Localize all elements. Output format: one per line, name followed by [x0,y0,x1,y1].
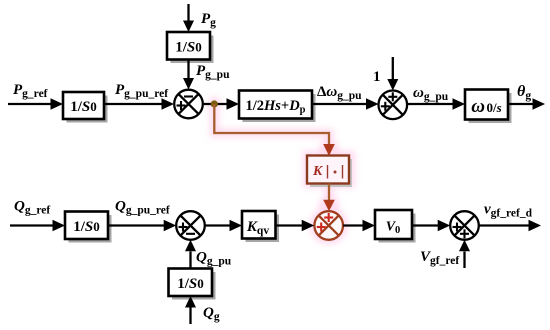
arrowhead into sum S5 [438,220,451,231]
wire block F to sum S4 [108,224,165,226]
svg-text:vgf_ref_d: vgf_ref_d [484,202,533,220]
block F shadow [69,215,112,243]
arrowhead into sum S2 top [387,79,398,91]
wire input Pg_ref [8,103,52,105]
arrowhead output vgf_ref_d [529,220,542,231]
wire block G to multiplier S3 [276,224,304,226]
block K shadow [310,159,352,187]
summing junction S2 [379,91,408,120]
svg-text:Vgf_ref: Vgf_ref [420,249,459,267]
sign minus bottom of S4 [186,233,195,235]
block A shadow [67,96,108,123]
summing junction S1 [174,90,203,119]
block C 1/2Hs+Dp [239,91,312,119]
arrowhead output theta_g [533,98,546,109]
wire block A to sum S1 [104,103,163,105]
arrowhead into sum S1 [162,98,175,109]
wire S4 to block G [205,224,231,226]
wire S3 to block H [343,224,364,226]
node pickoff dot [211,100,218,107]
sign plus left of S3 [317,223,326,232]
block H shadow [379,214,416,243]
arrowhead into block 1/S0 (A) [51,98,64,109]
block B 1/S0 [167,32,210,60]
arrowhead into block C [227,98,240,109]
svg-text:ω0/s: ω0/s [471,96,501,117]
arrowhead into sum S2 [366,98,379,109]
svg-text:Δωg_pu: Δωg_pu [317,84,362,102]
block G Kqv [242,211,276,239]
svg-text:1/S0: 1/S0 [175,40,202,56]
wire block C to sum S2 [312,103,367,105]
arrowhead into multiplier S3 [302,220,315,231]
block I shadow [172,272,216,300]
sign plus bottom of S5 [460,229,469,238]
svg-text:θg: θg [517,83,531,102]
svg-text:Pg_pu_ref: Pg_pu_ref [115,82,168,100]
wire S5 output [479,224,529,226]
svg-text:1/2Hs+Dp: 1/2Hs+Dp [245,98,305,116]
block H V0 [375,210,412,239]
multiplier junction S3 (red) [314,211,343,240]
block G shadow [246,215,280,243]
svg-text:1: 1 [373,69,381,85]
svg-text:ωg_pu: ωg_pu [413,85,449,103]
sign minus top of S1 [184,95,193,97]
arrowhead into sum S4 bottom [185,240,196,252]
block I 1/S0 [169,269,213,297]
red wire block K to multiplier S3 [328,184,330,201]
red arrowhead into block K [323,144,335,156]
sign plus left of S1 [177,101,186,110]
wire input Qg_ref [10,224,54,226]
sign plus top of S3 [324,213,333,222]
arrowhead into block I bottom [185,296,196,308]
svg-text:1/S0: 1/S0 [73,219,100,235]
sign plus left of S2 [381,102,390,111]
arrowhead into block G [230,220,243,231]
wire block B to sum S1 [187,60,189,79]
block C shadow [243,94,316,122]
arrowhead into block H [363,220,376,231]
red feedforward wire from node to block K [214,104,329,145]
pink highlight glow under red feedforward path [207,97,355,245]
svg-text:Pg_pu: Pg_pu [196,63,230,81]
sign plus left of S5 [453,223,462,232]
arrowhead into sum S5 bottom [459,240,470,252]
wire S2 to block D [407,103,454,105]
arrowhead into block 1/S0 (B) [183,21,194,33]
svg-text:Pg: Pg [201,11,216,29]
block D omega0/s [465,90,508,120]
svg-text:Qg_pu_ref: Qg_pu_ref [115,199,170,217]
arrowhead into sum S1 top [183,78,194,90]
wire S1 to block C [203,103,228,105]
wire input Pg vertical [187,4,189,21]
wire block I to sum S4 vertical [189,252,191,269]
arrowhead into block 1/S0 (F) [53,220,66,231]
svg-text:1/S0: 1/S0 [70,99,97,115]
sign plus left of S4 [179,223,188,232]
block A 1/S0 [63,92,104,119]
sign plus top of S2 [388,92,397,101]
block D shadow [469,93,512,123]
wire constant 1 vertical [392,57,394,79]
svg-text:Qg_ref: Qg_ref [14,199,50,217]
arrowhead into block D [453,98,466,109]
wire block D output [508,103,533,105]
svg-text:Pg_ref: Pg_ref [13,82,48,100]
block B shadow [171,36,214,64]
summing junction S5 [450,211,479,240]
svg-text:Qg_pu: Qg_pu [196,250,232,268]
wire input Vgf_ref vertical [463,252,465,269]
arrowhead into sum S4 [164,220,177,231]
svg-text:K: K [312,164,324,179]
svg-text:1/S0: 1/S0 [177,276,204,292]
block K |.| [307,156,349,184]
wire block H to sum S5 [412,224,439,226]
red arrowhead into multiplier S3 [323,200,335,211]
block F 1/S0 [65,212,108,240]
wire input Qg vertical [189,308,191,325]
svg-text:Qg: Qg [203,305,220,323]
summing junction S4 [176,211,205,240]
